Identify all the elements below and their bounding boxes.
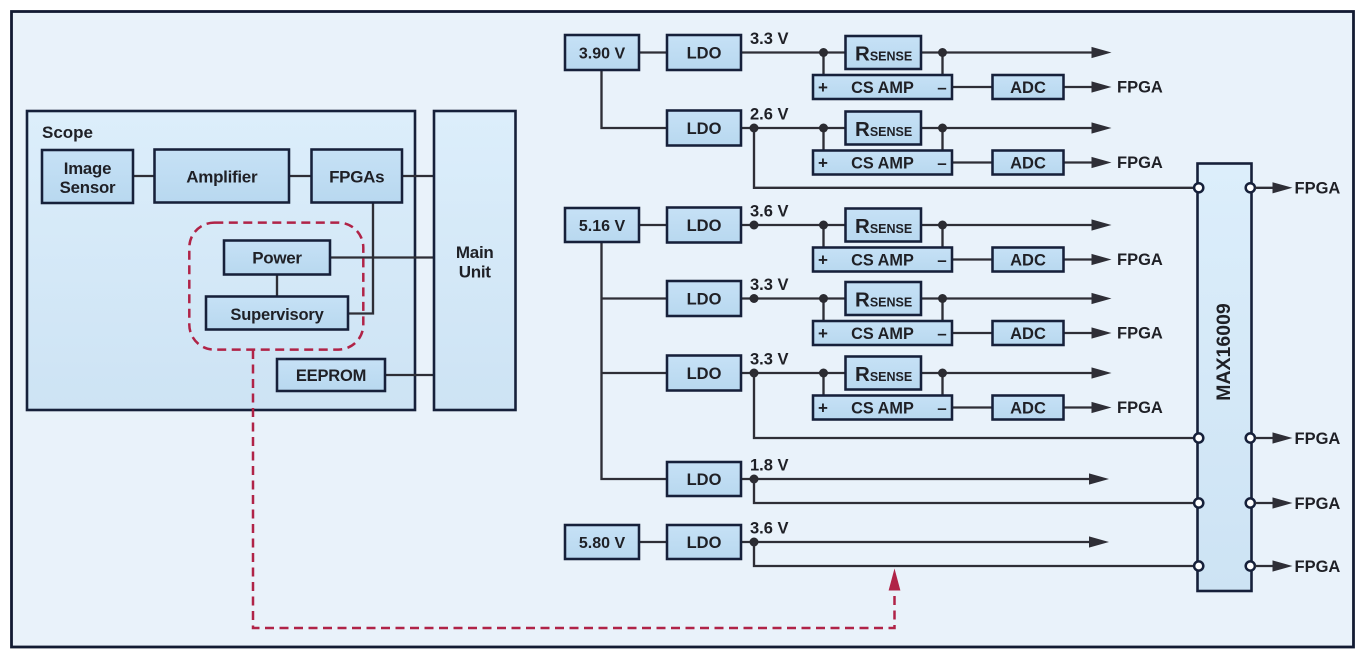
svg-text:3.6 V: 3.6 V: [750, 203, 789, 221]
svg-text:LDO: LDO: [687, 365, 722, 383]
svg-text:3.3 V: 3.3 V: [750, 351, 789, 369]
svg-text:5.80 V: 5.80 V: [579, 535, 626, 552]
svg-text:+: +: [818, 399, 828, 418]
svg-text:3.3 V: 3.3 V: [750, 30, 789, 48]
svg-text:ADC: ADC: [1010, 79, 1046, 97]
svg-text:FPGA: FPGA: [1295, 495, 1341, 513]
svg-text:FPGAs: FPGAs: [329, 167, 384, 186]
svg-text:ADC: ADC: [1010, 325, 1046, 343]
svg-text:3.6 V: 3.6 V: [750, 520, 789, 538]
svg-text:ADC: ADC: [1010, 252, 1046, 270]
svg-text:ADC: ADC: [1010, 155, 1046, 173]
svg-text:–: –: [937, 324, 946, 343]
svg-text:LDO: LDO: [687, 471, 722, 489]
svg-text:FPGA: FPGA: [1117, 154, 1163, 172]
svg-text:–: –: [937, 78, 946, 97]
svg-text:+: +: [818, 251, 828, 270]
svg-text:Main: Main: [456, 243, 494, 262]
svg-text:CS AMP: CS AMP: [851, 79, 914, 97]
svg-text:–: –: [937, 251, 946, 270]
svg-text:LDO: LDO: [687, 44, 722, 62]
svg-text:LDO: LDO: [687, 217, 722, 235]
svg-text:MAX16009: MAX16009: [1213, 303, 1235, 401]
svg-text:FPGA: FPGA: [1117, 399, 1163, 417]
svg-text:LDO: LDO: [687, 120, 722, 138]
svg-text:–: –: [937, 154, 946, 173]
svg-text:2.6 V: 2.6 V: [750, 106, 789, 124]
svg-text:ADC: ADC: [1010, 400, 1046, 418]
svg-text:Scope: Scope: [42, 123, 93, 142]
svg-text:Supervisory: Supervisory: [230, 306, 324, 324]
svg-text:CS AMP: CS AMP: [851, 400, 914, 418]
svg-text:1.8 V: 1.8 V: [750, 457, 789, 475]
svg-text:CS AMP: CS AMP: [851, 325, 914, 343]
svg-text:–: –: [937, 399, 946, 418]
svg-text:FPGA: FPGA: [1117, 251, 1163, 269]
svg-text:3.3 V: 3.3 V: [750, 276, 789, 294]
svg-text:5.16 V: 5.16 V: [579, 218, 626, 235]
svg-text:3.90 V: 3.90 V: [579, 45, 626, 62]
svg-text:CS AMP: CS AMP: [851, 252, 914, 270]
svg-text:CS AMP: CS AMP: [851, 155, 914, 173]
svg-text:FPGA: FPGA: [1117, 325, 1163, 343]
svg-text:LDO: LDO: [687, 290, 722, 308]
svg-text:LDO: LDO: [687, 534, 722, 552]
svg-text:FPGA: FPGA: [1117, 79, 1163, 97]
svg-text:EEPROM: EEPROM: [296, 367, 366, 385]
svg-text:Amplifier: Amplifier: [186, 167, 258, 186]
svg-text:Sensor: Sensor: [60, 178, 116, 197]
svg-text:FPGA: FPGA: [1295, 180, 1341, 198]
svg-text:+: +: [818, 154, 828, 173]
svg-text:Power: Power: [252, 249, 302, 268]
svg-text:FPGA: FPGA: [1295, 430, 1341, 448]
svg-text:Unit: Unit: [459, 263, 491, 282]
svg-text:Image: Image: [64, 159, 112, 178]
svg-text:+: +: [818, 324, 828, 343]
svg-text:+: +: [818, 78, 828, 97]
svg-text:FPGA: FPGA: [1295, 558, 1341, 576]
